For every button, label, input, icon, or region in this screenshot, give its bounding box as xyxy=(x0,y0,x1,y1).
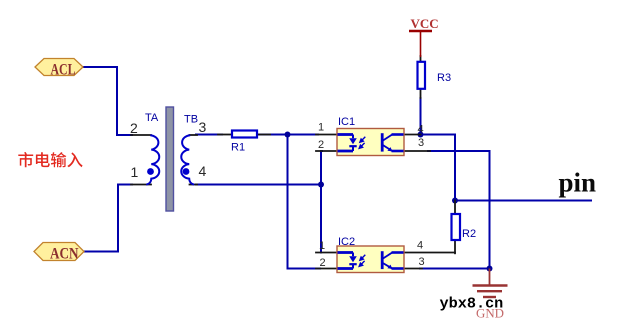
svg-text:1: 1 xyxy=(318,122,324,134)
svg-text:TA: TA xyxy=(145,112,159,124)
svg-text:R2: R2 xyxy=(462,228,476,240)
svg-text:ACN: ACN xyxy=(50,246,79,263)
svg-text:2: 2 xyxy=(320,257,326,269)
svg-text:3: 3 xyxy=(199,119,207,135)
svg-text:IC1: IC1 xyxy=(338,116,355,128)
svg-text:2: 2 xyxy=(130,120,138,136)
svg-text:VCC: VCC xyxy=(411,16,439,31)
svg-text:ACL: ACL xyxy=(51,62,76,79)
svg-text:4: 4 xyxy=(418,124,424,136)
svg-text:3: 3 xyxy=(419,256,425,268)
svg-text:TB: TB xyxy=(184,114,198,126)
svg-text:3: 3 xyxy=(418,137,424,149)
svg-text:IC2: IC2 xyxy=(338,236,355,248)
svg-text:pin: pin xyxy=(559,168,597,198)
svg-text:1: 1 xyxy=(131,164,139,180)
svg-text:4: 4 xyxy=(417,240,423,252)
svg-text:ybx8.cn: ybx8.cn xyxy=(440,295,504,313)
svg-text:R3: R3 xyxy=(437,72,451,84)
svg-text:2: 2 xyxy=(318,139,324,151)
svg-text:R1: R1 xyxy=(231,142,245,154)
svg-text:4: 4 xyxy=(199,163,207,179)
svg-text:1: 1 xyxy=(319,240,325,252)
